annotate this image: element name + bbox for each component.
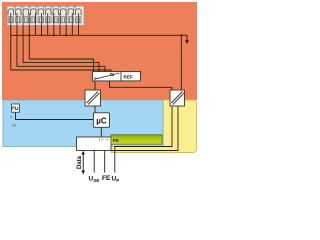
wire: bus tail stub bbox=[181, 35, 187, 40]
wire: uC to interface box bbox=[100, 127, 102, 137]
sensor cell ridge dome 3 bbox=[23, 9, 29, 15]
sensor cell electrode comb 6 bbox=[46, 17, 51, 23]
wire: electrode stub 1 bbox=[10, 26, 12, 36]
wire: level converter to uC bbox=[94, 106, 96, 113]
clock generator G bbox=[12, 104, 20, 112]
sensor chip region (blue) bbox=[3, 100, 163, 147]
sensor surface region (orange) bbox=[2, 2, 197, 100]
wire: electrode stub 6 bbox=[41, 26, 43, 36]
electrode lead 12 bbox=[77, 13, 79, 26]
svg-text:FE: FE bbox=[102, 175, 111, 182]
wire: electrode stub 11 bbox=[71, 26, 73, 36]
sensor cell electrode comb 10 bbox=[76, 17, 81, 23]
junction dot on bus at stub 8 bbox=[53, 34, 55, 36]
sensor cell electrode comb 7 bbox=[53, 17, 58, 23]
sensor cell electrode comb 2 bbox=[16, 17, 21, 23]
sensor cell gap pad 6 bbox=[51, 7, 53, 10]
sensor cell ridge dome 10 bbox=[76, 9, 82, 15]
sensor cell electrode comb 3 bbox=[23, 17, 28, 23]
sensor cell electrode comb 5 bbox=[38, 17, 43, 23]
sensor cell ridge dome 2 bbox=[16, 9, 22, 15]
electrode lead 10 bbox=[65, 13, 67, 26]
electrode lead 8 bbox=[53, 13, 55, 26]
junction dot on bus at stub 10 bbox=[65, 34, 67, 36]
sensor cell ridge dome 5 bbox=[38, 9, 44, 15]
sensor cell electrode comb 1 bbox=[8, 17, 13, 23]
wire: sense line 2 bbox=[17, 35, 105, 71]
wire: electrode stub 7 bbox=[47, 26, 49, 36]
wire: sense line 1 bbox=[11, 35, 111, 71]
electrode lead 5 bbox=[34, 13, 36, 26]
wire: ADC output to level converter bbox=[94, 81, 96, 90]
electrode lead 7 bbox=[47, 13, 49, 26]
wire: clock to uC bbox=[16, 112, 94, 119]
wire: electrode stub 2 bbox=[16, 26, 18, 36]
sensor cell gap pad 1 bbox=[13, 7, 15, 10]
sensor cell electrode comb 8 bbox=[61, 17, 66, 23]
svg-text:2x: 2x bbox=[12, 123, 16, 128]
sensor cell gap pad 7 bbox=[58, 7, 60, 10]
wire: electrode stub 8 bbox=[53, 26, 55, 36]
sensor cell ridge dome 9 bbox=[68, 9, 74, 15]
wire: REF line to right converter and U_P bbox=[110, 81, 173, 173]
wire: right converter output along foil bottom bbox=[111, 106, 178, 151]
svg-text:REF: REF bbox=[124, 75, 133, 80]
wire: common electrode bus to right converter bbox=[11, 35, 182, 90]
wire: electrode stub 10 bbox=[65, 26, 67, 36]
svg-text:µC: µC bbox=[96, 117, 107, 126]
electrode lead 4 bbox=[28, 13, 30, 26]
sensor cell gap pad 8 bbox=[66, 7, 68, 10]
A/D converter with REF bbox=[93, 72, 141, 81]
sensor cell ridge dome 7 bbox=[53, 9, 59, 15]
svg-text:FE: FE bbox=[113, 138, 119, 143]
carrier foil region (yellow) bbox=[111, 100, 197, 153]
sensor cell ridge dome 8 bbox=[61, 9, 67, 15]
probe arrowhead on bus tail bbox=[185, 40, 189, 44]
wire: sense line 4 bbox=[29, 35, 93, 71]
junction dot on bus at stub 4 bbox=[28, 34, 30, 36]
sensor cell gap pad 9 bbox=[73, 7, 75, 10]
Data bus arrow bbox=[82, 151, 85, 174]
electrode lead 3 bbox=[22, 13, 24, 26]
svg-text:USE: USE bbox=[89, 176, 100, 184]
wire: FE line bbox=[104, 151, 106, 173]
electrode lead 11 bbox=[71, 13, 73, 26]
sensor cell gap pad 3 bbox=[28, 7, 30, 10]
wire: electrode stub 9 bbox=[59, 26, 61, 36]
sensor cell ridge dome 4 bbox=[31, 9, 37, 15]
sensor cell ridge dome 1 bbox=[8, 9, 14, 15]
level converter left bbox=[85, 90, 101, 106]
electrode lead 2 bbox=[16, 13, 18, 26]
sensor cell electrode comb 4 bbox=[31, 17, 36, 23]
FE field electrode bar bbox=[111, 135, 162, 144]
wire: electrode stub 5 bbox=[34, 26, 36, 36]
wire: electrode stub 4 bbox=[28, 26, 30, 36]
sensor cell ridge dome 6 bbox=[46, 9, 52, 15]
sensor cell gap pad 4 bbox=[36, 7, 38, 10]
sensor element array strip bbox=[7, 6, 84, 26]
electrode lead 6 bbox=[41, 13, 43, 26]
electrode lead 1 bbox=[10, 13, 12, 26]
interface box bbox=[77, 137, 112, 151]
wire: electrode stub 12 bbox=[77, 26, 79, 36]
wire: electrode stub 3 bbox=[22, 26, 24, 36]
svg-text:UP: UP bbox=[112, 176, 120, 184]
junction dot on bus at stub 6 bbox=[41, 34, 43, 36]
wire: sense line 3 bbox=[23, 35, 99, 71]
sensor cell gap pad 5 bbox=[43, 7, 45, 10]
svg-text:Data: Data bbox=[77, 155, 83, 169]
junction dot at bus corner bbox=[180, 34, 182, 36]
sensor cell gap pad 2 bbox=[21, 7, 23, 10]
level converter right bbox=[170, 90, 185, 106]
sensor cell electrode comb 9 bbox=[68, 17, 73, 23]
electrode lead 9 bbox=[59, 13, 61, 26]
microcontroller uC bbox=[93, 113, 109, 128]
wire: U_SE line bbox=[93, 151, 95, 173]
